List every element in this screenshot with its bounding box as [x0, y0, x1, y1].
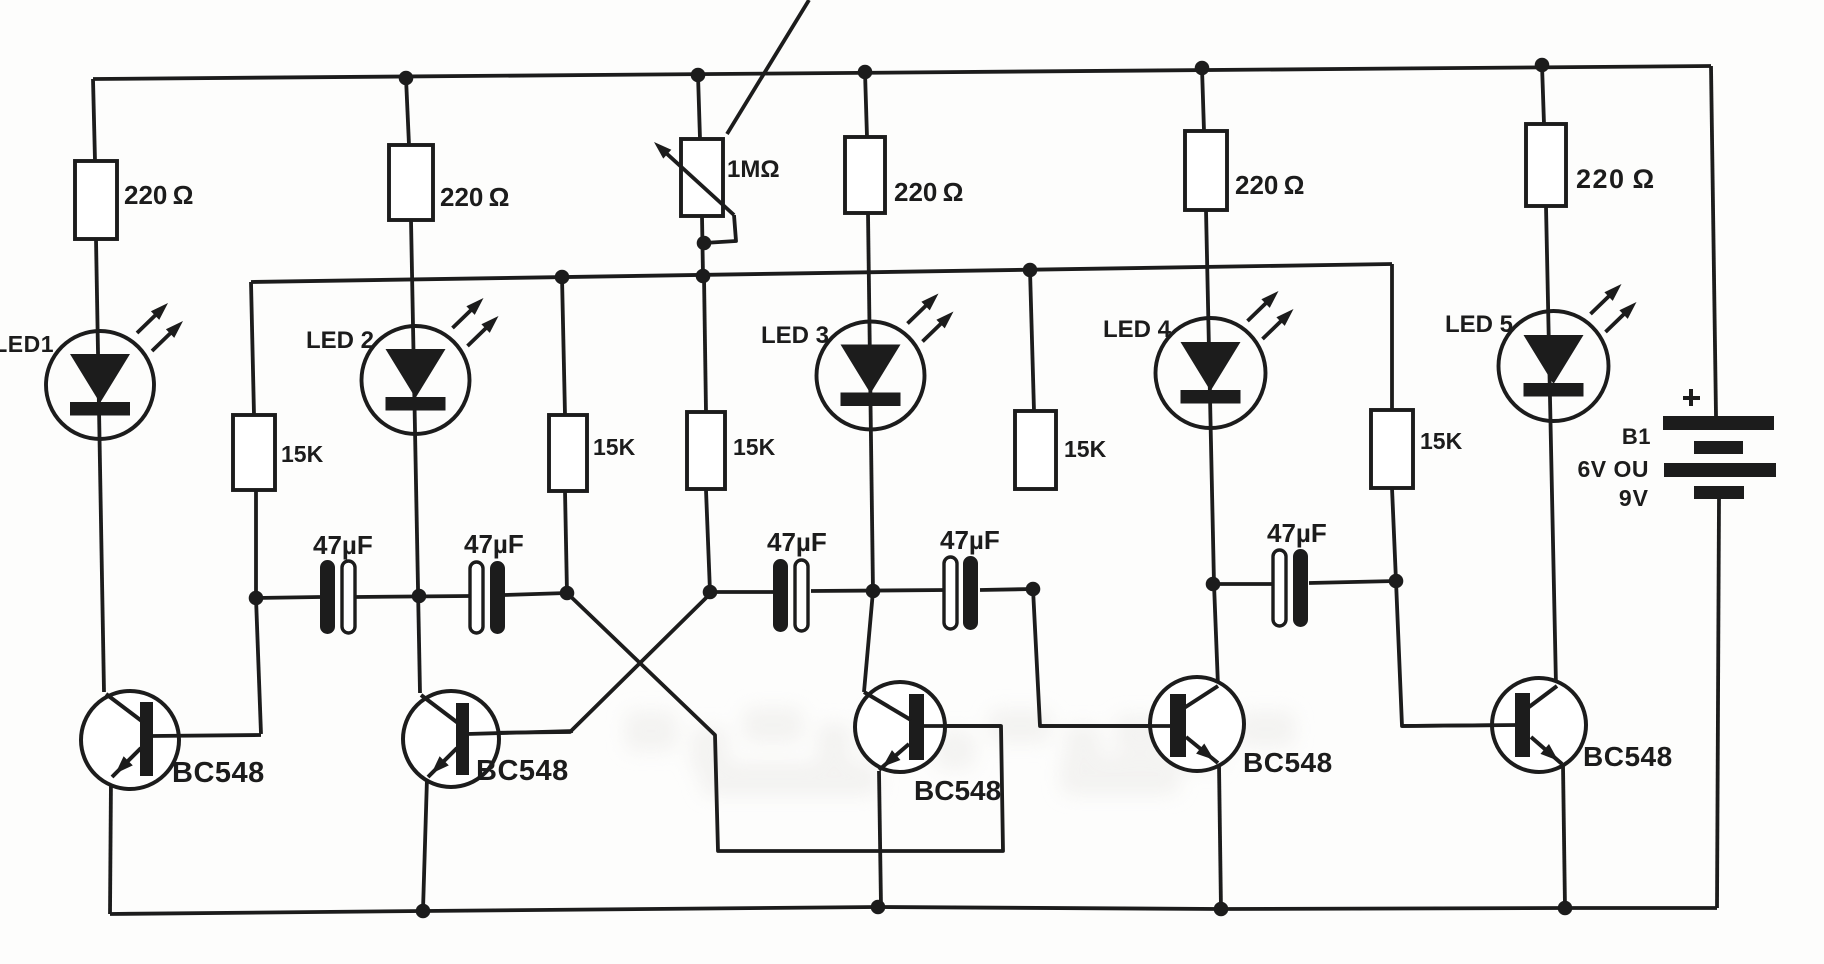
svg-text:LED 2: LED 2: [306, 327, 374, 354]
svg-text:47µF: 47µF: [1267, 518, 1327, 548]
svg-text:220 Ω: 220 Ω: [124, 180, 193, 210]
svg-text:15K: 15K: [1064, 436, 1107, 462]
svg-text:47µF: 47µF: [767, 527, 827, 557]
svg-text:15K: 15K: [733, 434, 776, 460]
svg-text:BC548: BC548: [914, 775, 1001, 806]
svg-text:220 Ω: 220 Ω: [1576, 164, 1656, 194]
svg-text:LED1: LED1: [0, 331, 54, 357]
svg-text:1MΩ: 1MΩ: [727, 156, 780, 183]
svg-text:220 Ω: 220 Ω: [894, 177, 963, 207]
svg-text:9V: 9V: [1619, 485, 1649, 511]
svg-text:47µF: 47µF: [313, 530, 373, 560]
svg-text:47µF: 47µF: [464, 529, 524, 559]
svg-text:BC548: BC548: [172, 757, 265, 789]
svg-text:220 Ω: 220 Ω: [440, 182, 509, 212]
svg-text:47µF: 47µF: [940, 525, 1000, 555]
svg-text:220 Ω: 220 Ω: [1235, 170, 1304, 200]
svg-text:B1: B1: [1622, 424, 1651, 449]
svg-text:15K: 15K: [281, 441, 324, 467]
svg-text:LED 3: LED 3: [761, 322, 829, 349]
svg-text:LED 5: LED 5: [1445, 311, 1513, 338]
svg-text:LED 4: LED 4: [1103, 316, 1172, 343]
svg-text:6V OU: 6V OU: [1577, 456, 1649, 482]
svg-text:BC548: BC548: [1583, 741, 1673, 772]
svg-text:15K: 15K: [593, 434, 636, 460]
svg-text:15K: 15K: [1420, 428, 1463, 454]
svg-text:BC548: BC548: [1243, 747, 1333, 778]
svg-text:BC548: BC548: [476, 755, 569, 787]
